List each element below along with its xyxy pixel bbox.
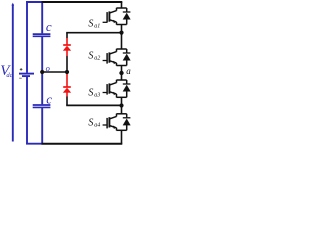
minus sign [19,77,22,79]
battery long plate [19,73,34,75]
diode chain black wires [66,33,68,106]
label Sa2 [88,51,100,62]
main leg wire [121,2,123,144]
top rail black segment [42,1,123,3]
svg-text:a1: a1 [94,23,100,29]
label Sa3 [88,88,100,99]
DC source rail [26,1,28,144]
bottom rail black segment [42,143,123,145]
capacitor C2 [33,104,51,106]
wire D1 cathode to junction1 [66,32,121,34]
wire D2 anode to junction3 [66,104,121,106]
svg-text:c: c [46,19,52,34]
node a dot [119,71,123,75]
top rail blue segment [26,1,42,3]
svg-text:c: c [46,92,52,107]
clamp diode D2 (red) [63,74,71,97]
svg-text:S: S [88,18,93,29]
svg-text:a2: a2 [94,56,100,62]
IGBT switch Sa4 [103,114,131,131]
svg-text:a3: a3 [94,93,100,99]
clamp diode D1 (red) [63,38,71,56]
IGBT switch Sa1 [103,8,131,25]
junction3 dot [119,103,123,107]
battery short plate [22,75,30,77]
svg-text:a4: a4 [94,122,100,129]
plus sign [20,68,23,71]
svg-text:S: S [88,118,93,129]
IGBT switch Sa2 [103,49,131,66]
diode chain mid dot [65,70,69,74]
wire node o line [42,71,67,73]
svg-text:o: o [46,63,50,73]
capacitor C1 [33,33,51,35]
Vdc dimension line [12,4,14,141]
junction1 dot [119,30,123,34]
capacitor rail [41,1,43,144]
svg-text:a: a [126,66,131,76]
label Sa1 [88,18,100,29]
label Sa4 [88,118,100,129]
node o dot [40,70,44,74]
IGBT switch Sa3 [103,80,131,98]
svg-text:dc: dc [6,72,12,79]
label Vdc [0,63,12,79]
background [0,0,132,145]
svg-text:S: S [88,88,93,99]
Vdc arrowhead [12,3,15,6]
svg-text:S: S [88,51,93,62]
bottom rail blue segment [26,143,42,145]
